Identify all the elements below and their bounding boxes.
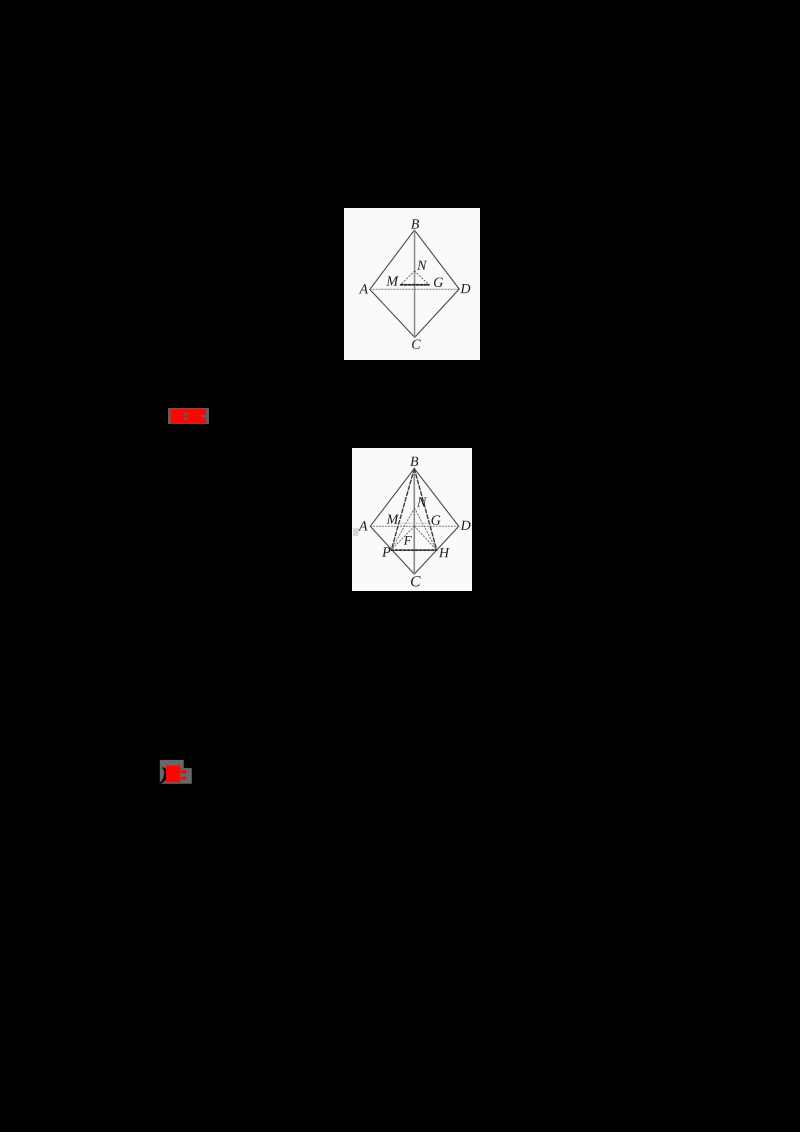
black parenthesis — [160, 768, 168, 784]
label G — [431, 515, 440, 524]
bold dotted P-H — [391, 549, 436, 551]
red mark 2: highlighted answer blob with parenthesis — [158, 758, 196, 786]
edge D-C — [415, 289, 460, 337]
red blob — [166, 766, 180, 783]
edge C-A — [370, 526, 414, 574]
dotted O-H — [414, 526, 436, 550]
label G — [434, 278, 443, 287]
label D — [460, 284, 470, 293]
label M — [386, 276, 398, 285]
label C — [411, 576, 421, 586]
label B — [410, 457, 418, 466]
dotted N-P — [391, 508, 414, 549]
red mark 1: highlighted answer blob — [167, 406, 211, 426]
diagonal B-C vertical — [413, 469, 415, 574]
dotted N-H — [415, 508, 437, 550]
dotted diagonal A-D — [370, 525, 459, 527]
figure 2: rhombus ABCD folded, with P, F, H and dashed B-P, B-H — [352, 448, 472, 591]
label C — [412, 340, 421, 349]
label N — [417, 261, 427, 270]
white panel — [352, 448, 472, 591]
edge A-B — [370, 230, 415, 289]
label D — [460, 521, 470, 530]
dotted diagonal A-D — [370, 288, 459, 290]
label M — [386, 515, 398, 524]
edge B-D — [414, 230, 459, 289]
white panel — [344, 208, 480, 360]
bold dashed B-P — [391, 469, 414, 550]
figure 1: rhombus ABCD with midsegment triangle M,N,G — [344, 208, 480, 360]
dashed N-M — [401, 271, 415, 285]
edge B-D — [414, 469, 459, 527]
edge C-A — [370, 289, 415, 337]
dotted O-P — [391, 526, 414, 549]
label A — [359, 284, 368, 293]
bold dashed B-H — [414, 469, 436, 550]
bold dashed M-G — [401, 284, 429, 286]
label F — [404, 536, 412, 545]
edge A-B — [370, 469, 414, 527]
edge D-C — [414, 526, 459, 574]
label A — [358, 521, 367, 530]
label H — [439, 548, 450, 557]
label N — [417, 498, 427, 507]
label B — [411, 219, 419, 228]
label P — [382, 547, 390, 556]
diagonal B-C vertical — [414, 230, 416, 337]
gray square at left edge — [353, 528, 359, 536]
dashed N-G — [415, 271, 429, 285]
light dotted M-G — [401, 522, 431, 524]
